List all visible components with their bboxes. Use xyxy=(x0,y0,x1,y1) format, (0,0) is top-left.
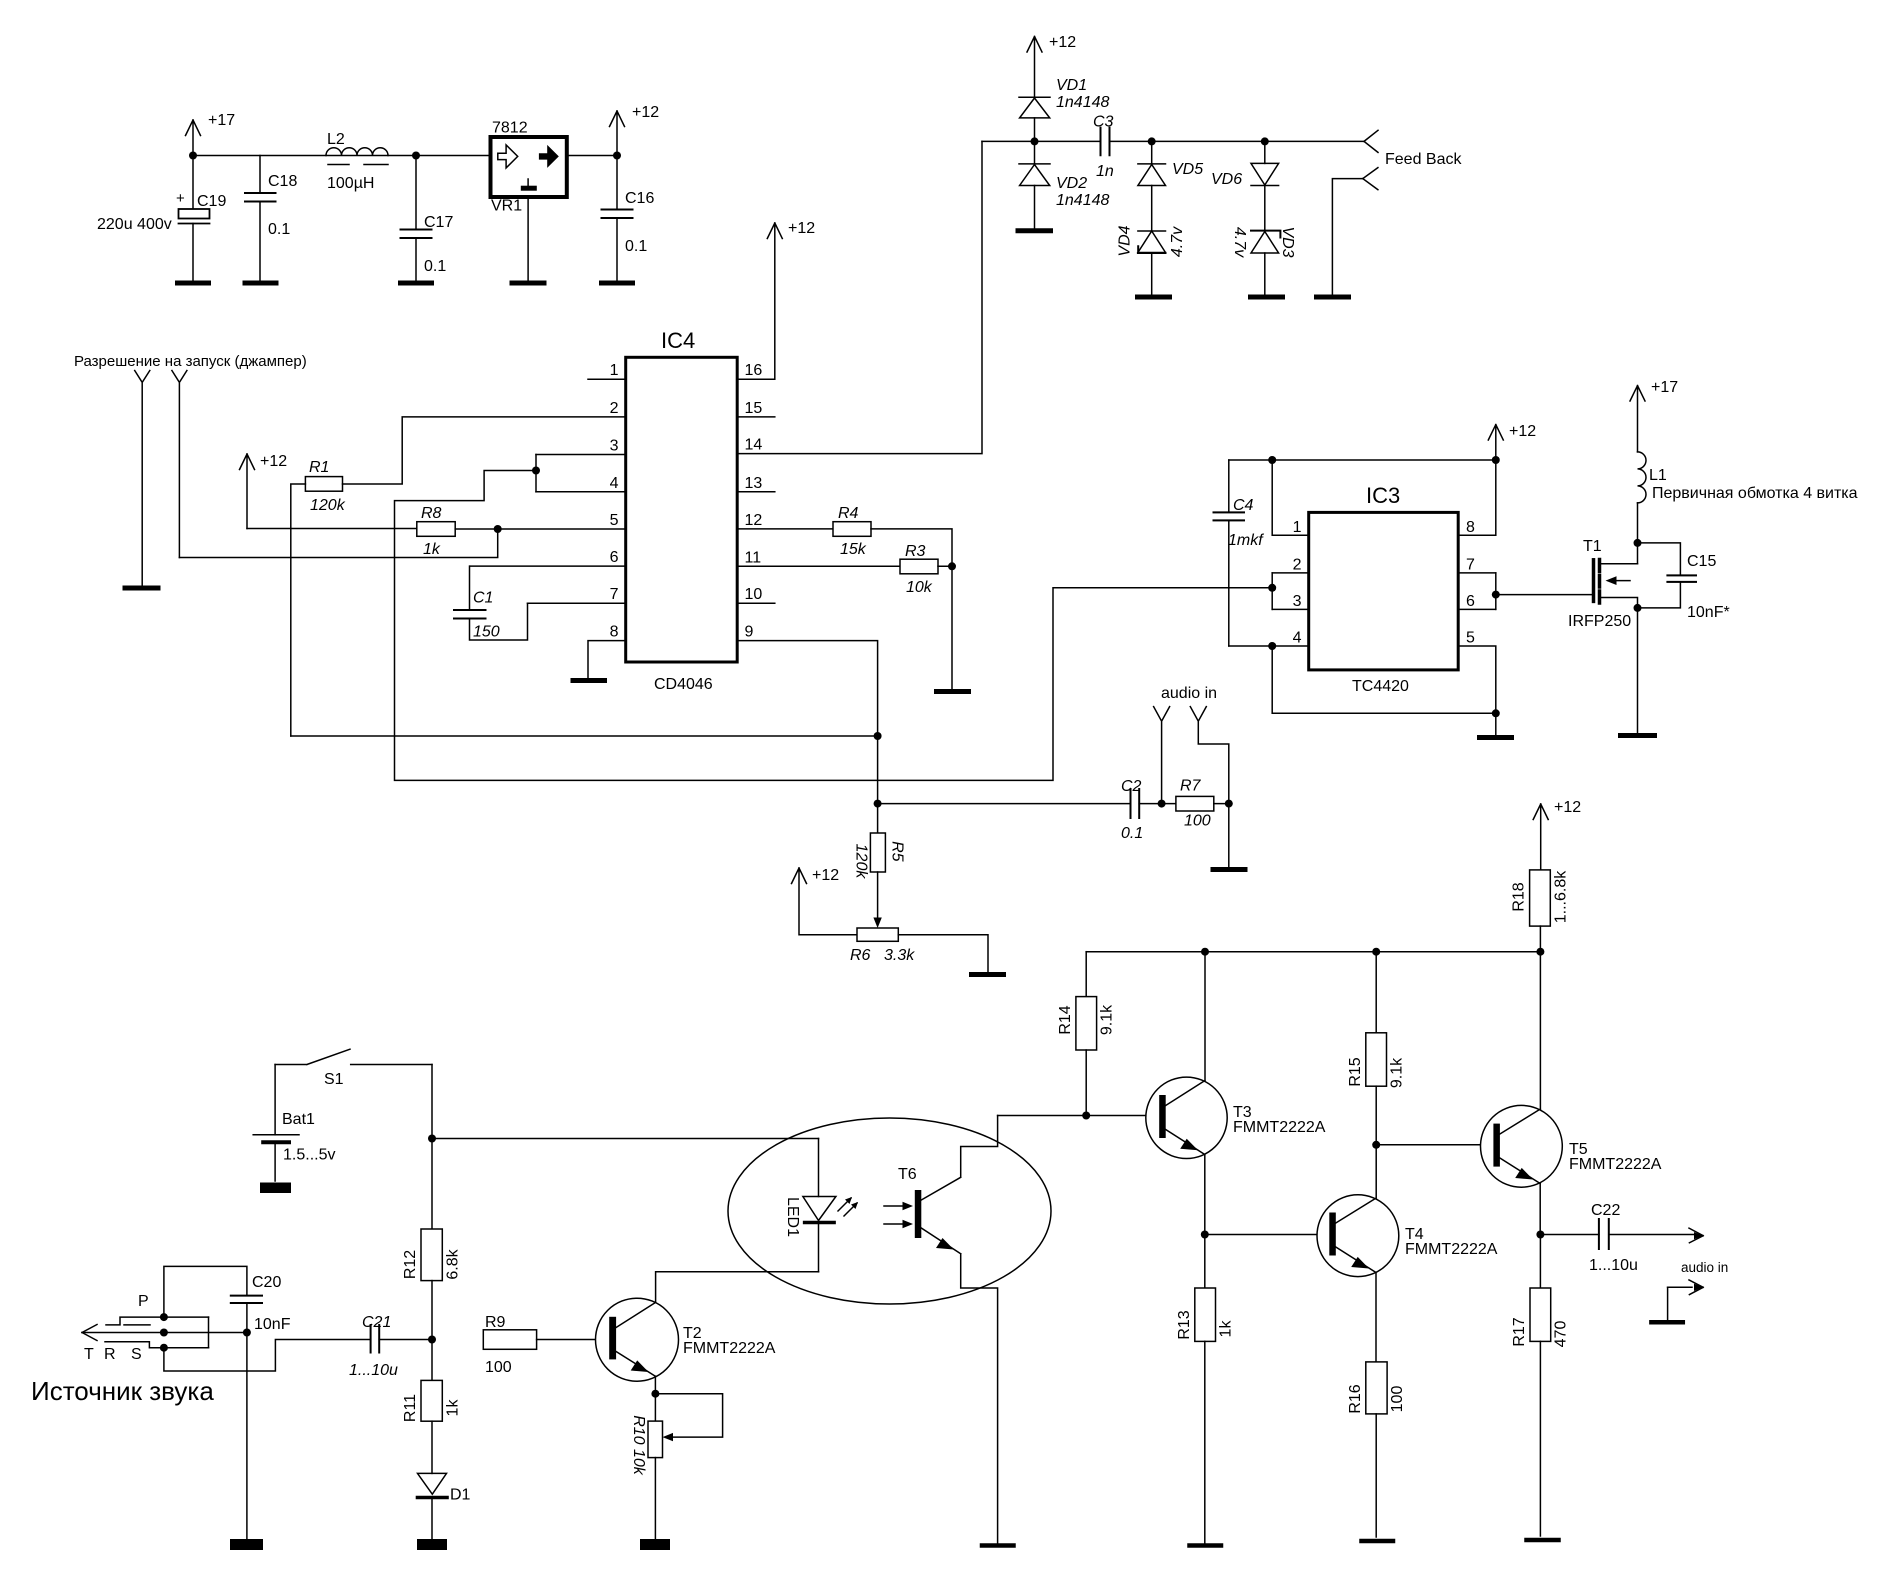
svg-text:Bat1: Bat1 xyxy=(282,1111,315,1128)
svg-text:C21: C21 xyxy=(362,1314,391,1331)
svg-text:VD3: VD3 xyxy=(1279,226,1296,257)
IC4 pin 13 xyxy=(738,475,775,492)
resistor R16 100 xyxy=(1347,1362,1406,1537)
capacitor C15 10nF* xyxy=(1638,543,1730,621)
wire feedback rail down to IC4 pin 14 xyxy=(738,141,983,453)
svg-text:4: 4 xyxy=(610,475,619,492)
svg-text:C20: C20 xyxy=(252,1274,281,1291)
capacitor C19 xyxy=(97,156,226,281)
ground under audio in return xyxy=(1651,1320,1682,1325)
IC3 pin 7 xyxy=(1458,557,1496,574)
capacitor C3 xyxy=(1093,114,1114,181)
svg-text:220u 400v: 220u 400v xyxy=(97,216,172,233)
IC4 pin 1 xyxy=(588,362,626,379)
svg-text:R3: R3 xyxy=(905,543,926,560)
IC4 pin 7 xyxy=(528,586,626,603)
wire R6 right to ground xyxy=(898,935,988,972)
svg-text:3.3k: 3.3k xyxy=(884,947,915,964)
wire bottom rail from R1 to pin9 column xyxy=(291,732,882,740)
svg-text:10: 10 xyxy=(745,586,763,603)
IC4 pin 3 xyxy=(536,438,626,455)
jack connector P T R S xyxy=(82,1293,244,1363)
wire jack S to C21 xyxy=(164,1340,371,1372)
node +12 power arrow above C16 xyxy=(610,104,660,156)
svg-text:1: 1 xyxy=(610,362,619,379)
ground under R7 xyxy=(1213,867,1245,872)
wire IC4 pin3/4 node to IC3 pins 2/3 xyxy=(395,471,1273,781)
wire IC3 pins 6-7 tie to T1 gate xyxy=(1492,573,1592,610)
svg-text:16: 16 xyxy=(745,362,763,379)
transistor T1 IRFP250 MOSFET xyxy=(1568,538,1638,630)
svg-text:100: 100 xyxy=(1389,1386,1406,1413)
ground under jumper antenna 1 xyxy=(125,586,158,591)
svg-text:+: + xyxy=(176,190,185,207)
svg-text:L1: L1 xyxy=(1649,467,1667,484)
capacitor C16 xyxy=(602,156,655,281)
battery Bat1 1.5...5v xyxy=(253,1065,335,1182)
svg-text:+12: +12 xyxy=(812,867,839,884)
svg-text:1n4148: 1n4148 xyxy=(1056,94,1109,111)
svg-text:7: 7 xyxy=(610,586,619,603)
ground under VD3 xyxy=(1251,295,1283,300)
ground under C19 xyxy=(178,281,209,286)
svg-text:audio in: audio in xyxy=(1161,685,1217,702)
svg-text:3: 3 xyxy=(1293,593,1302,610)
svg-text:11: 11 xyxy=(745,549,762,566)
svg-text:120k: 120k xyxy=(310,497,346,514)
wire T2 collector to LED cathode xyxy=(656,1272,819,1303)
wire jumper antenna 2 to pin5 node xyxy=(179,529,497,558)
svg-text:LED1: LED1 xyxy=(784,1197,801,1237)
wire T3 emitter node to T4 base xyxy=(1201,1231,1330,1239)
node Feed Back lower arrow xyxy=(1332,168,1378,295)
ground under R17 xyxy=(1527,1538,1559,1543)
svg-text:15k: 15k xyxy=(840,541,867,558)
voltage regulator VR1 7812 xyxy=(491,120,567,215)
svg-text:C19: C19 xyxy=(197,193,226,210)
svg-text:100: 100 xyxy=(485,1359,512,1376)
svg-text:9.1k: 9.1k xyxy=(1099,1004,1116,1035)
svg-text:P: P xyxy=(138,1293,149,1310)
wire T6 collector to T3 base xyxy=(998,1112,1160,1120)
svg-text:L2: L2 xyxy=(327,131,345,148)
svg-text:R14: R14 xyxy=(1057,1005,1074,1034)
svg-text:0.1: 0.1 xyxy=(268,221,290,238)
svg-text:5: 5 xyxy=(610,512,619,529)
ground under T6 xyxy=(982,1543,1014,1548)
svg-text:1...6.8k: 1...6.8k xyxy=(1552,870,1569,923)
IC4 pin 10 xyxy=(738,586,775,603)
svg-text:12: 12 xyxy=(745,512,763,529)
svg-text:Источник звука: Источник звука xyxy=(31,1376,214,1406)
resistor R18 1...6.8k xyxy=(1511,799,1582,952)
wire R1 left to bottom rail xyxy=(291,484,306,736)
resistor R13 1k xyxy=(1176,1235,1235,1544)
svg-text:R: R xyxy=(104,1346,116,1363)
capacitor C1 150 xyxy=(454,566,528,640)
svg-text:R9: R9 xyxy=(485,1314,506,1331)
transistor T6 phototransistor xyxy=(898,1116,998,1544)
LED1 emission arrows xyxy=(838,1197,858,1216)
capacitor C20 10nF xyxy=(231,1274,291,1539)
svg-text:FMMT2222A: FMMT2222A xyxy=(1405,1241,1498,1258)
svg-text:IC3: IC3 xyxy=(1366,483,1400,508)
ground under Bat1 xyxy=(260,1183,291,1194)
svg-text:15: 15 xyxy=(745,400,763,417)
svg-text:FMMT2222A: FMMT2222A xyxy=(1233,1119,1326,1136)
IC3 box TC4420 xyxy=(1309,483,1459,695)
wire IC3 pins 2-3 tie with input node xyxy=(1268,573,1276,610)
svg-text:R15: R15 xyxy=(1347,1057,1364,1086)
potentiometer R10 10k xyxy=(630,1415,663,1476)
resistor R15 9.1k xyxy=(1347,952,1406,1145)
svg-text:1.5...5v: 1.5...5v xyxy=(283,1147,335,1164)
IC3 pin 4 xyxy=(1229,630,1309,650)
svg-text:9.1k: 9.1k xyxy=(1389,1057,1406,1088)
svg-text:Первичная обмотка 4 витка: Первичная обмотка 4 витка xyxy=(1652,485,1858,502)
svg-text:R18: R18 xyxy=(1511,882,1528,911)
transistor T5 FMMT2222A xyxy=(1481,952,1662,1235)
svg-text:1k: 1k xyxy=(423,541,441,558)
diode D1 xyxy=(418,1421,471,1539)
svg-text:1...10u: 1...10u xyxy=(1589,1257,1638,1274)
IC3 pin 5 xyxy=(1458,630,1496,714)
node +12 power arrow above VD1 xyxy=(1027,34,1076,97)
diode VD2 1n4148 xyxy=(1019,141,1109,228)
svg-text:VD6: VD6 xyxy=(1211,171,1242,188)
resistor R4 15k xyxy=(833,505,871,558)
svg-text:8: 8 xyxy=(610,624,619,641)
wire C2 to R7 xyxy=(1139,800,1176,808)
svg-text:C1: C1 xyxy=(473,590,493,607)
svg-text:+12: +12 xyxy=(788,220,815,237)
resistor R8 1k xyxy=(417,505,455,558)
svg-text:R10 10k: R10 10k xyxy=(630,1415,647,1476)
svg-text:R17: R17 xyxy=(1511,1317,1528,1346)
wire R3 right to ground xyxy=(938,562,956,689)
svg-text:3: 3 xyxy=(610,438,619,455)
resistor R11 1k xyxy=(402,1380,461,1422)
wire IC3 top supply line xyxy=(1229,456,1500,464)
ground under IC3 xyxy=(1480,735,1512,740)
svg-text:2: 2 xyxy=(1293,557,1302,574)
svg-text:7: 7 xyxy=(1466,557,1475,574)
svg-text:6.8k: 6.8k xyxy=(444,1248,461,1279)
wire R5 to R6 wiper arrow xyxy=(873,872,881,928)
capacitor C17 xyxy=(401,156,454,281)
wire T1 source to ground xyxy=(1634,604,1642,733)
wire S1 to LED anode rail xyxy=(428,1065,819,1230)
svg-text:IRFP250: IRFP250 xyxy=(1568,613,1631,630)
wire +12 rail bottom xyxy=(1086,948,1544,956)
svg-text:150: 150 xyxy=(473,624,500,641)
svg-text:1k: 1k xyxy=(1218,1320,1235,1338)
wire L1 to T1 drain node xyxy=(1634,503,1642,564)
wire R12 to C21 node xyxy=(428,1281,436,1381)
svg-text:VD4: VD4 xyxy=(1117,225,1134,256)
svg-text:T6: T6 xyxy=(898,1166,917,1183)
IC4 pin 15 xyxy=(738,400,775,417)
optocoupler ellipse xyxy=(728,1118,1051,1304)
svg-text:1n4148: 1n4148 xyxy=(1056,192,1109,209)
node +12 power arrow at R6 xyxy=(792,867,858,935)
ground under T1 xyxy=(1621,733,1655,738)
svg-text:R13: R13 xyxy=(1176,1310,1193,1339)
svg-text:+12: +12 xyxy=(260,453,287,470)
svg-text:4.7v: 4.7v xyxy=(1169,226,1186,257)
svg-text:Разрешение на запуск (джампер): Разрешение на запуск (джампер) xyxy=(74,353,307,370)
capacitor C18 xyxy=(245,156,297,281)
svg-text:FMMT2222A: FMMT2222A xyxy=(683,1340,776,1357)
svg-text:+17: +17 xyxy=(208,112,235,129)
wire R9 to T2 base xyxy=(537,1339,610,1341)
transistor T4 FMMT2222A xyxy=(1317,1145,1498,1362)
svg-text:100: 100 xyxy=(1184,813,1211,830)
svg-text:CD4046: CD4046 xyxy=(654,676,713,693)
wire R10 to ground xyxy=(654,1458,656,1539)
ground under R16 xyxy=(1362,1539,1394,1544)
svg-text:4.7v: 4.7v xyxy=(1231,227,1248,258)
svg-text:0.1: 0.1 xyxy=(424,258,446,275)
svg-text:470: 470 xyxy=(1553,1321,1570,1348)
svg-text:+12: +12 xyxy=(1049,34,1076,51)
node audio in return arrow with ground xyxy=(1668,1280,1704,1320)
svg-text:13: 13 xyxy=(745,475,763,492)
node +17 power arrow top-left xyxy=(186,112,236,156)
svg-text:VD2: VD2 xyxy=(1056,175,1087,192)
IC3 pin 6 xyxy=(1458,593,1496,610)
wire main rail top-left xyxy=(189,152,621,160)
svg-text:100µH: 100µH xyxy=(327,175,374,192)
IC4 pin 16 with +12 arrow xyxy=(738,220,816,379)
capacitor C4 1mkf xyxy=(1214,460,1265,646)
resistor R5 120k xyxy=(852,833,905,879)
svg-text:C15: C15 xyxy=(1687,553,1716,570)
ground under R3 xyxy=(937,689,969,694)
diode VD1 1n4148 xyxy=(1019,77,1109,141)
svg-text:7812: 7812 xyxy=(492,120,528,137)
IC3 pin 2 xyxy=(1272,557,1309,574)
svg-text:+12: +12 xyxy=(1509,423,1536,440)
diode VD6 xyxy=(1211,141,1279,231)
IC4 pin 4 xyxy=(536,475,626,492)
wire feedback rail xyxy=(982,137,1364,145)
svg-text:R11: R11 xyxy=(402,1394,419,1422)
svg-text:C2: C2 xyxy=(1121,778,1142,795)
LED LED1 xyxy=(784,1139,836,1272)
ground under VD4 xyxy=(1138,295,1170,300)
inductor L2 xyxy=(326,131,388,192)
svg-text:FMMT2222A: FMMT2222A xyxy=(1569,1156,1662,1173)
node audio in antenna right xyxy=(1190,707,1229,804)
node Feed Back upper arrow xyxy=(1364,130,1462,168)
ground under C16 xyxy=(602,281,633,286)
resistor R3 10k xyxy=(900,543,938,596)
ground under D1 xyxy=(417,1539,447,1550)
svg-text:+12: +12 xyxy=(632,104,659,121)
node audio in output arrow xyxy=(1681,1228,1728,1275)
svg-text:R5: R5 xyxy=(888,841,905,862)
wire R8 right to IC4 pin 5 xyxy=(455,525,626,533)
wire +12 to R8 xyxy=(247,528,417,530)
wire R7 right to ground xyxy=(1214,800,1233,867)
svg-text:+17: +17 xyxy=(1651,379,1678,396)
svg-text:C4: C4 xyxy=(1233,497,1254,514)
capacitor C22 1...10u xyxy=(1589,1202,1695,1274)
ground under VD2 xyxy=(1018,228,1051,233)
svg-text:TC4420: TC4420 xyxy=(1352,678,1409,695)
ground under R6 xyxy=(972,972,1004,977)
switch S1 xyxy=(275,1049,432,1088)
T6 light input arrows xyxy=(884,1202,913,1228)
zener diode VD4 4.7v xyxy=(1117,225,1187,294)
svg-text:IC4: IC4 xyxy=(661,328,695,353)
svg-text:VD5: VD5 xyxy=(1172,161,1203,178)
ground under C18 xyxy=(245,281,276,286)
svg-text:6: 6 xyxy=(1466,593,1475,610)
IC4 pin 6 xyxy=(470,549,625,566)
svg-text:0.1: 0.1 xyxy=(1121,825,1143,842)
IC4 pin 12 xyxy=(738,512,834,529)
svg-text:10nF: 10nF xyxy=(254,1316,291,1333)
ground under C20 xyxy=(230,1539,263,1550)
capacitor C21 1...10u xyxy=(349,1314,432,1379)
svg-text:1mkf: 1mkf xyxy=(1228,532,1264,549)
ground under VR1 xyxy=(512,281,544,286)
IC4 pin 8 xyxy=(588,624,626,678)
wire VR1 to ground xyxy=(527,197,529,280)
svg-text:6: 6 xyxy=(610,549,619,566)
svg-text:2: 2 xyxy=(610,400,619,417)
resistor R9 100 xyxy=(483,1314,536,1376)
resistor R7 100 xyxy=(1176,778,1214,830)
wire T2 emitter to R10 xyxy=(651,1376,722,1441)
svg-text:1n: 1n xyxy=(1096,163,1114,180)
IC4 box CD4046 xyxy=(626,328,738,693)
resistor R1 120k xyxy=(305,459,345,514)
svg-text:10nF*: 10nF* xyxy=(1687,604,1730,621)
svg-text:T1: T1 xyxy=(1583,538,1602,555)
svg-text:C22: C22 xyxy=(1591,1202,1620,1219)
ground under R13 xyxy=(1190,1543,1222,1548)
wire R15 node to T5 base xyxy=(1372,1141,1493,1149)
svg-text:audio in: audio in xyxy=(1681,1260,1728,1275)
ground under Feed Back xyxy=(1317,295,1349,300)
svg-text:1...10u: 1...10u xyxy=(349,1362,398,1379)
wire jack P to C20 top xyxy=(164,1266,247,1317)
svg-text:R12: R12 xyxy=(402,1250,419,1279)
svg-text:T: T xyxy=(84,1346,94,1363)
svg-text:R7: R7 xyxy=(1180,778,1202,795)
wire pin9 column to C2 node xyxy=(874,736,882,833)
svg-text:1: 1 xyxy=(1293,519,1302,536)
wire T5 emitter node xyxy=(1536,1231,1599,1239)
svg-text:0.1: 0.1 xyxy=(625,238,647,255)
svg-text:8: 8 xyxy=(1466,519,1475,536)
svg-text:14: 14 xyxy=(745,437,763,454)
svg-text:+12: +12 xyxy=(1554,799,1581,816)
resistor R12 6.8k xyxy=(402,1229,461,1281)
ground under C17 xyxy=(401,281,432,286)
svg-text:120k: 120k xyxy=(852,844,869,880)
wire IC3 bottom line to ground node xyxy=(1272,646,1500,717)
svg-text:1k: 1k xyxy=(444,1399,461,1417)
IC3 pin 3 xyxy=(1272,593,1309,610)
svg-text:R16: R16 xyxy=(1347,1384,1364,1413)
node +17 power arrow above L1 xyxy=(1630,379,1678,452)
wire IC4 pins 3-4 tie xyxy=(532,455,540,492)
ground under R10 xyxy=(640,1539,670,1550)
transistor T2 FMMT2222A xyxy=(596,1298,776,1381)
diode VD5 xyxy=(1138,141,1203,231)
node audio in antenna left xyxy=(1154,707,1170,804)
svg-text:R6: R6 xyxy=(850,947,871,964)
potentiometer R6 3.3k xyxy=(850,928,915,964)
inductor L1 xyxy=(1638,452,1858,503)
node jumper antenna 2 xyxy=(172,371,187,558)
svg-text:S: S xyxy=(131,1346,142,1363)
wire R4 to R3 node xyxy=(871,529,952,566)
node +12 power arrow at R8 xyxy=(240,453,288,529)
svg-text:5: 5 xyxy=(1466,630,1475,647)
svg-text:9: 9 xyxy=(745,624,754,641)
svg-text:Feed Back: Feed Back xyxy=(1385,151,1462,168)
IC3 pin 1 xyxy=(1272,460,1309,536)
svg-text:VR1: VR1 xyxy=(491,198,522,215)
svg-text:C16: C16 xyxy=(625,190,654,207)
svg-text:4: 4 xyxy=(1293,630,1302,647)
resistor R17 470 xyxy=(1511,1235,1570,1537)
svg-text:R1: R1 xyxy=(309,459,329,476)
node jumper antenna 1 xyxy=(135,371,150,586)
ground under IC4 pin 8 xyxy=(573,678,605,683)
svg-text:C18: C18 xyxy=(268,173,297,190)
capacitor C2 0.1 xyxy=(1121,778,1143,842)
svg-text:R8: R8 xyxy=(421,505,442,522)
svg-text:VD1: VD1 xyxy=(1056,77,1087,94)
zener diode VD3 4.7v xyxy=(1231,226,1296,294)
transistor T3 FMMT2222A xyxy=(1146,952,1326,1235)
svg-text:R4: R4 xyxy=(838,505,859,522)
resistor R14 9.1k xyxy=(1057,952,1116,1116)
IC3 pin 8 xyxy=(1458,460,1496,536)
IC4 pin 9 xyxy=(738,624,878,736)
svg-text:C17: C17 xyxy=(424,214,453,231)
svg-text:S1: S1 xyxy=(324,1071,344,1088)
svg-text:10k: 10k xyxy=(906,579,933,596)
node +12 power arrow above IC3 xyxy=(1488,423,1536,460)
IC4 pin 11 xyxy=(738,549,901,566)
wire R1 right to IC4 pin 2 xyxy=(343,417,626,484)
svg-text:C3: C3 xyxy=(1093,114,1114,131)
wire C2 line xyxy=(878,803,1131,805)
svg-text:D1: D1 xyxy=(450,1487,471,1504)
wire IC3 ground stub xyxy=(1495,713,1497,735)
